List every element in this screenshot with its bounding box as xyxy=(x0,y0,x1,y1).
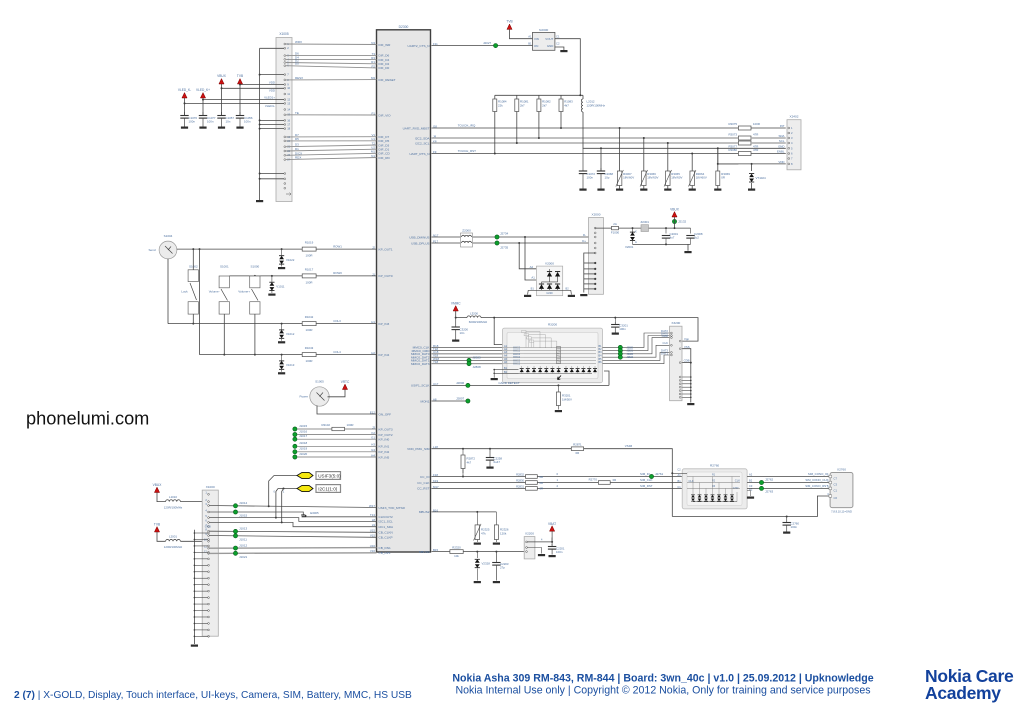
wire CB_CLKN from X1000 pin8 xyxy=(209,531,376,532)
svg-text:SIM_IO: SIM_IO xyxy=(640,472,651,476)
svg-text:VRTC: VRTC xyxy=(341,380,350,384)
testpoint J2735 xyxy=(495,241,499,245)
svg-text:KP_IN2: KP_IN2 xyxy=(379,450,390,454)
ESD array V2000 xyxy=(536,266,562,296)
connector X1005 display connector body xyxy=(276,38,292,202)
svg-text:Z2301: Z2301 xyxy=(640,220,649,224)
svg-text:17: 17 xyxy=(287,122,290,126)
ferrite E3005 on CLKOUT2 xyxy=(301,515,306,517)
testpoint J1016 xyxy=(293,432,297,436)
svg-text:J2808: J2808 xyxy=(473,365,482,369)
svg-text:J2761: J2761 xyxy=(655,472,664,476)
svg-text:DIF_D0: DIF_D0 xyxy=(379,66,390,70)
svg-text:18V/60V: 18V/60V xyxy=(647,176,658,180)
resistor R2831 xyxy=(526,487,538,491)
svg-text:100n: 100n xyxy=(189,119,196,123)
testpoint J2806 xyxy=(466,383,470,387)
ground under C1057 xyxy=(218,127,225,129)
svg-text:100n: 100n xyxy=(207,119,214,123)
wire VBUX to VBUS rail xyxy=(674,217,676,228)
svg-text:MBUS2: MBUS2 xyxy=(419,510,430,514)
svg-text:J2132: J2132 xyxy=(678,220,687,224)
svg-text:B1: B1 xyxy=(531,286,535,290)
svg-text:KP_OUT1: KP_OUT1 xyxy=(379,247,393,251)
svg-text:J1015: J1015 xyxy=(239,514,248,518)
svg-text:0R: 0R xyxy=(613,478,617,482)
varistor R3067 xyxy=(619,128,621,171)
svg-text:CB_CLKN: CB_CLKN xyxy=(379,531,393,535)
svg-text:18: 18 xyxy=(287,127,290,131)
svg-text:SDA: SDA xyxy=(779,134,785,138)
resistor R1082 xyxy=(538,95,540,99)
svg-text:J1016: J1016 xyxy=(299,429,308,433)
svg-text:18V/60V: 18V/60V xyxy=(671,176,682,180)
svg-text:27p: 27p xyxy=(500,566,505,570)
svg-text:CC_IO: CC_IO xyxy=(420,475,430,479)
svg-text:TVB: TVB xyxy=(154,523,160,527)
svg-text:SIM_CONO_CLK: SIM_CONO_CLK xyxy=(805,478,828,482)
ground under C2201 xyxy=(549,555,556,557)
wire VMMC rail to X3200 Vpp xyxy=(481,318,698,342)
ground at V2000 B2 xyxy=(568,295,575,297)
svg-text:V1013: V1013 xyxy=(286,363,295,367)
svg-text:VT1024: VT1024 xyxy=(756,176,767,180)
svg-text:J1013: J1013 xyxy=(239,527,248,531)
wire USB_DPLUS from IC xyxy=(432,242,589,244)
svg-text:B1: B1 xyxy=(678,479,682,483)
svg-text:Lock: Lock xyxy=(181,290,188,294)
resistor R2830 xyxy=(526,481,538,485)
svg-text:X2402: X2402 xyxy=(790,115,799,119)
ground inside R2760 xyxy=(747,491,750,497)
ground below X1005 bus xyxy=(256,200,263,202)
svg-text:MON1: MON1 xyxy=(421,399,430,403)
wire CB_CLKP from X1000 pin9 xyxy=(209,536,376,538)
svg-text:GND: GND xyxy=(547,44,553,48)
wire L2001 to X1000 pin10 xyxy=(180,540,207,542)
svg-text:R1043: R1043 xyxy=(305,346,314,350)
ground at USB rail xyxy=(684,251,691,253)
R3200 substrate arrow xyxy=(558,376,562,380)
testpoint J1014 xyxy=(233,504,237,508)
wire X3200 VSS chain xyxy=(682,349,691,403)
connector X2200 xyxy=(524,537,535,559)
svg-text:ON: ON xyxy=(534,44,538,48)
power flag TVB top-left xyxy=(237,79,242,84)
wire MMC0 bus from IC to R3200 xyxy=(432,346,503,348)
wire R1084 to TOUCH_RST xyxy=(494,112,496,154)
ground at V2000 B1 xyxy=(524,295,531,297)
svg-text:A2: A2 xyxy=(749,472,753,476)
wire COL3 net xyxy=(168,323,302,325)
svg-text:Power: Power xyxy=(299,395,308,399)
ground at R3200 xyxy=(491,378,498,380)
testpoint J2734 xyxy=(495,235,499,239)
svg-text:ON_OFF: ON_OFF xyxy=(379,412,392,416)
svg-text:UART2_CTS_N: UART2_CTS_N xyxy=(408,44,430,48)
svg-text:GND: GND xyxy=(205,525,211,529)
wire CLKOUT2 from X1000 pin4 xyxy=(209,512,303,515)
wire VBUS from X2000 pin1 xyxy=(595,227,611,229)
svg-text:VSIM: VSIM xyxy=(625,444,633,448)
wire R2872 lower stub xyxy=(462,469,464,477)
capacitor C1072 xyxy=(582,148,584,171)
svg-text:TVB: TVB xyxy=(506,20,512,24)
svg-text:2k7: 2k7 xyxy=(520,104,525,108)
ground under R2325 xyxy=(474,543,481,545)
ground under R3067 xyxy=(616,189,623,191)
svg-text:Send: Send xyxy=(149,248,156,252)
svg-text:16: 16 xyxy=(287,118,290,122)
svg-text:VBUX: VBUX xyxy=(217,74,227,78)
svg-text:CDB: CDB xyxy=(684,358,690,362)
testpoint J1015b xyxy=(233,510,237,514)
svg-text:V1011: V1011 xyxy=(276,285,285,289)
svg-text:X1005: X1005 xyxy=(279,32,288,36)
svg-text:V2328: V2328 xyxy=(482,562,491,566)
ground under C1072 xyxy=(579,189,586,191)
wire D+ to V2000 xyxy=(519,243,540,269)
svg-text:100n: 100n xyxy=(791,525,798,529)
svg-text:DAT1: DAT1 xyxy=(661,352,668,356)
svg-text:J1014: J1014 xyxy=(239,501,248,505)
testpoint J1012 xyxy=(233,546,237,550)
ground under R3066 xyxy=(640,189,647,191)
capacitor C2008 xyxy=(690,228,692,233)
svg-text:0u47: 0u47 xyxy=(494,460,501,464)
svg-text:RDX: RDX xyxy=(295,156,301,160)
svg-text:I2C1_SCL: I2C1_SCL xyxy=(379,520,394,524)
wire CARD DETECT net xyxy=(432,384,468,386)
svg-text:C1: C1 xyxy=(556,35,560,39)
wire VRTC to switch xyxy=(328,390,346,397)
wire X1000 ground chain xyxy=(193,530,195,644)
testpoint J1013 xyxy=(233,529,237,533)
svg-text:VBUX: VBUX xyxy=(153,483,163,487)
svg-text:F1000: F1000 xyxy=(611,231,620,235)
wire CB_DP1 from X1000 pin12 xyxy=(209,552,376,555)
connector X1000 system connector body xyxy=(202,490,218,636)
resistor R1042 xyxy=(302,322,316,326)
EMI filter R2760 body xyxy=(682,469,747,509)
capacitor C2760 xyxy=(786,516,788,518)
svg-text:R3073: R3073 xyxy=(728,133,737,137)
svg-text:12: 12 xyxy=(287,98,290,102)
EMI filter array R3200 body xyxy=(503,328,603,383)
resistor R1083 xyxy=(560,95,562,99)
svg-text:R3102: R3102 xyxy=(321,423,330,427)
testpoint J1019 xyxy=(293,450,297,454)
svg-text:J2807: J2807 xyxy=(456,397,465,401)
svg-text:100n: 100n xyxy=(619,327,626,331)
wire MMC lines R3200 to X3200 xyxy=(603,333,670,347)
svg-text:4k7: 4k7 xyxy=(467,461,472,465)
wire I2C2_SDA net xyxy=(432,137,739,139)
wire GND bus left of X1005 xyxy=(259,48,261,200)
svg-text:100R: 100R xyxy=(753,122,760,126)
svg-text:100n: 100n xyxy=(587,176,594,180)
svg-text:100R: 100R xyxy=(306,280,313,284)
ground under V2328 xyxy=(474,581,481,583)
svg-text:GND: GND xyxy=(778,145,784,149)
svg-text:SCL: SCL xyxy=(779,139,785,143)
svg-text:D+: D+ xyxy=(582,239,586,243)
svg-text:A1: A1 xyxy=(528,35,532,39)
svg-text:VLED1+: VLED1+ xyxy=(264,96,275,100)
ground under V1012 xyxy=(278,341,285,343)
wire USB_DMINUS from IC xyxy=(432,236,589,238)
wire SIM bottom rail to X2760 xyxy=(672,496,829,517)
varistor R3064 xyxy=(691,154,693,172)
ground under C3200 xyxy=(452,340,459,342)
testpoint J2132 xyxy=(672,219,676,223)
resistor R3102 xyxy=(332,427,345,430)
svg-text:VDD_PMU_SIM: VDD_PMU_SIM xyxy=(407,447,430,451)
svg-text:0R: 0R xyxy=(721,176,725,180)
wire TOUCH_IRQ net xyxy=(432,127,739,129)
svg-text:R2871: R2871 xyxy=(573,443,582,447)
inductor L2001 xyxy=(157,532,166,541)
connector X2402 touch panel xyxy=(787,120,801,170)
svg-text:X3200: X3200 xyxy=(671,321,680,325)
power flag VLED_K- xyxy=(182,93,187,98)
svg-text:120k: 120k xyxy=(500,532,507,536)
svg-text:B2: B2 xyxy=(749,479,753,483)
ferrite Z2301 xyxy=(641,225,649,232)
svg-text:X2200: X2200 xyxy=(525,532,534,536)
svg-text:D0: D0 xyxy=(295,62,299,66)
svg-text:VDD: VDD xyxy=(269,89,275,93)
svg-text:V2001: V2001 xyxy=(625,245,634,249)
svg-text:D-: D- xyxy=(583,233,586,237)
bus ripper I2C1(1:0) xyxy=(278,488,297,490)
wire VDD rail pin10 xyxy=(222,87,285,89)
svg-text:10n: 10n xyxy=(460,331,465,335)
svg-text:KP_OUT3: KP_OUT3 xyxy=(379,427,393,431)
svg-text:Nokia Asha 309 RM-843, RM-844: Nokia Asha 309 RM-843, RM-844 | Board: 3… xyxy=(452,673,873,685)
svg-text:KP_IN0: KP_IN0 xyxy=(379,438,390,442)
svg-text:DIF_WR: DIF_WR xyxy=(379,43,392,47)
wire Send circle bottom to COL3 xyxy=(167,259,169,324)
svg-text:J1017: J1017 xyxy=(299,434,308,438)
svg-text:MMC0_DAT3: MMC0_DAT3 xyxy=(411,362,430,366)
svg-text:USIF3(5:0): USIF3(5:0) xyxy=(318,473,341,478)
capacitor C2201 xyxy=(551,544,553,547)
resistor R1084 xyxy=(494,95,496,99)
wire V2000 B2 to ground xyxy=(570,290,573,294)
svg-text:C7: C7 xyxy=(834,477,838,481)
resistor R2832 xyxy=(526,475,538,479)
wire Lock to ROW1 xyxy=(192,249,194,270)
svg-text:V1022: V1022 xyxy=(286,258,295,262)
ground under V1011 xyxy=(268,294,275,296)
resistor R2872 xyxy=(462,448,464,450)
capacitor C3200 xyxy=(455,318,457,327)
svg-text:R2832: R2832 xyxy=(516,473,524,477)
svg-text:A1: A1 xyxy=(531,276,535,280)
svg-text:10n: 10n xyxy=(226,119,231,123)
capacitor C2258 xyxy=(489,448,491,450)
svg-text:120R/100MHz: 120R/100MHz xyxy=(164,545,183,549)
wire ROW1 net xyxy=(177,248,302,250)
wire CB_DN1 from X1000 pin11 xyxy=(209,547,376,550)
svg-text:CC_CLK: CC_CLK xyxy=(417,481,430,485)
resistor R3073 xyxy=(738,136,751,140)
svg-text:I2C1_SDA: I2C1_SDA xyxy=(379,525,395,529)
svg-text:47k: 47k xyxy=(481,532,486,536)
wire I2C2_SCL net xyxy=(432,142,739,144)
testpoint J2763 xyxy=(759,486,763,490)
svg-text:SIM_CONO_RST: SIM_CONO_RST xyxy=(805,484,828,488)
wire V2000 B1 to ground xyxy=(527,290,530,294)
svg-text:K: K xyxy=(635,230,637,234)
svg-text:0R: 0R xyxy=(540,487,544,491)
svg-text:L2001: L2001 xyxy=(169,535,177,539)
resistor R2770 xyxy=(598,481,610,485)
diode V1013 xyxy=(281,355,283,361)
svg-text:S1001: S1001 xyxy=(220,265,229,269)
svg-text:N2000: N2000 xyxy=(539,28,548,32)
svg-text:TE: TE xyxy=(295,111,299,115)
svg-text:C1: C1 xyxy=(677,485,681,489)
svg-text:V2000: V2000 xyxy=(545,261,554,265)
svg-text:2k7: 2k7 xyxy=(542,104,547,108)
svg-text:L3200: L3200 xyxy=(470,312,478,316)
ground under C2068 xyxy=(597,189,604,191)
svg-text:VLED1-: VLED1- xyxy=(265,104,275,108)
svg-text:KP_OUT0: KP_OUT0 xyxy=(379,274,393,278)
svg-text:KP_IN3: KP_IN3 xyxy=(379,322,390,326)
wire ROW0 net xyxy=(229,275,302,277)
wire Lock to COL3 xyxy=(192,314,194,324)
svg-text:J2027: J2027 xyxy=(483,41,492,45)
power flag VLED_K+ xyxy=(200,93,205,98)
svg-text:L1010: L1010 xyxy=(169,495,177,499)
svg-text:10k: 10k xyxy=(454,554,459,558)
svg-text:USB_DPLUS: USB_DPLUS xyxy=(411,241,429,245)
diode V1022 xyxy=(281,249,283,255)
svg-text:MMC0: MMC0 xyxy=(513,363,521,366)
bus ripper USIF3(5:0) xyxy=(274,475,297,477)
svg-text:C2: C2 xyxy=(677,467,681,471)
svg-text:E3005: E3005 xyxy=(310,511,319,515)
wire L1010 to X1000 pin2 xyxy=(180,501,207,503)
wire Volume- bottom to COL4 xyxy=(223,314,225,355)
svg-text:2u2: 2u2 xyxy=(694,236,699,240)
wire L2012 to VDD rail xyxy=(583,112,738,164)
wire MBUS0 from IC xyxy=(432,551,450,553)
ground under C1076 xyxy=(181,127,188,129)
svg-text:4k7: 4k7 xyxy=(564,104,569,108)
svg-text:J1012: J1012 xyxy=(239,543,248,547)
svg-text:X2000: X2000 xyxy=(592,213,601,217)
svg-text:TVB: TVB xyxy=(237,74,243,78)
svg-text:INT: INT xyxy=(780,124,785,128)
connector X3200 MMC card xyxy=(670,326,682,401)
svg-text:0R: 0R xyxy=(540,481,544,485)
capacitor C2001 xyxy=(665,228,667,233)
wire VDD rail pin9 xyxy=(240,84,284,86)
svg-text:600R/100MHz: 600R/100MHz xyxy=(469,320,488,324)
svg-text:0R: 0R xyxy=(540,475,544,479)
ground under C2258 xyxy=(486,467,493,469)
svg-text:14: 14 xyxy=(287,107,290,111)
svg-text:D5: D5 xyxy=(295,137,299,141)
svg-text:UART_RTS_N: UART_RTS_N xyxy=(409,152,429,156)
svg-text:47R: 47R xyxy=(753,133,758,137)
wire MON1 stub xyxy=(432,400,468,402)
wire VDD_PMU_SIM VSIM rail xyxy=(432,448,572,450)
wire COL4 net xyxy=(200,354,303,356)
svg-text:R1042: R1042 xyxy=(305,315,314,319)
svg-text:ROW0: ROW0 xyxy=(333,271,342,275)
testpoint J1017 xyxy=(293,437,297,441)
svg-text:VLED_K+: VLED_K+ xyxy=(196,88,210,92)
resistor R3077 xyxy=(738,141,751,145)
svg-text:120R/100MHz: 120R/100MHz xyxy=(587,104,606,108)
ground under C1077 xyxy=(199,127,206,129)
svg-text:VBAT: VBAT xyxy=(548,522,556,526)
wire VDD pin8 X2402 xyxy=(718,163,786,165)
resistor R2320 xyxy=(450,550,463,554)
wire X2200 pin1 to VBAT xyxy=(527,541,552,543)
svg-text:0R: 0R xyxy=(576,451,580,455)
wire SIM_RST line xyxy=(432,487,683,489)
ground under R2326 xyxy=(493,543,500,545)
svg-text:J2762: J2762 xyxy=(765,478,774,482)
capacitor C2203 xyxy=(495,551,497,553)
svg-text:C1: C1 xyxy=(834,488,838,492)
connector X2000 USB xyxy=(589,218,604,295)
connector X1005 pins xyxy=(284,43,286,45)
svg-text:R2320: R2320 xyxy=(452,546,461,550)
power flag VBUX at USB xyxy=(672,212,677,217)
wire VLED1- rail pin13 xyxy=(185,102,285,104)
svg-text:13: 13 xyxy=(287,101,290,105)
svg-text:VDD: VDD xyxy=(269,81,275,85)
diode V2001 zener to rail xyxy=(632,228,634,232)
capacitor C1057 xyxy=(221,84,223,116)
svg-text:R3200: R3200 xyxy=(548,323,557,327)
wire N2000 GND to ground xyxy=(555,47,564,50)
svg-text:UART_RXD_MBST: UART_RXD_MBST xyxy=(403,126,430,130)
ground under R3201 xyxy=(555,410,562,412)
resistor R3201 xyxy=(557,384,559,386)
testpoint J1018 xyxy=(293,444,297,448)
wire ROW1 branch to COL4 xyxy=(199,249,201,355)
wire MBUS2 from IC xyxy=(432,511,497,513)
ground under C1056 xyxy=(236,127,243,129)
connector X2760 pin pads xyxy=(829,475,832,478)
svg-text:VOUT: VOUT xyxy=(545,37,553,41)
svg-text:CB_DP1: CB_DP1 xyxy=(379,551,391,555)
svg-text:100n: 100n xyxy=(556,550,563,554)
connector X2760 SIM card xyxy=(830,473,853,508)
wire pull-up top rail xyxy=(495,94,583,96)
wire R1081 to I2C2_SCL xyxy=(516,112,518,144)
wire VBUS rail xyxy=(619,227,691,229)
ground at N2000 xyxy=(560,50,567,52)
testpoint J1015 xyxy=(293,427,297,431)
inductor L2012 xyxy=(582,95,584,99)
diode V1012 xyxy=(281,324,283,330)
svg-text:DIF_RD: DIF_RD xyxy=(379,156,391,160)
ground under C2203 xyxy=(493,581,500,583)
svg-text:A: A xyxy=(635,240,637,244)
svg-text:GND: GND xyxy=(546,291,552,295)
svg-text:ENBL: ENBL xyxy=(777,150,785,154)
svg-text:Volume+: Volume+ xyxy=(238,290,250,294)
